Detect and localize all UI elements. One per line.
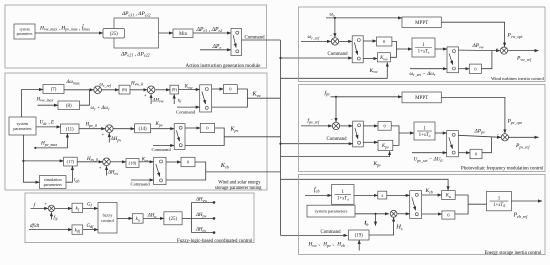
command bus vertical <box>280 40 282 235</box>
wire Peb_ref output <box>511 200 542 202</box>
wire dHvw stub into sum row1-b <box>150 94 152 104</box>
svg-text:parameters: parameters <box>44 182 63 187</box>
block 1/(1+sTd) pv <box>414 122 435 140</box>
svg-text:MPPT: MPPT <box>415 96 428 101</box>
svg-text:kdf: kdf <box>75 228 81 233</box>
svg-text:Action instruction generation: Action instruction generation module <box>185 64 261 69</box>
wire storage merge <box>455 195 468 214</box>
block Kvw gain wind <box>377 53 390 62</box>
module B border (Wind and solar energy storage parameter tuning) <box>5 73 267 190</box>
wire sysB branch to (17) <box>23 160 63 162</box>
wire Keb branch to storage module <box>281 179 449 190</box>
wire sum to wind switch1 <box>339 40 353 42</box>
svg-text:(9): (9) <box>172 87 178 92</box>
wire command into PV switch <box>281 143 353 145</box>
wire Kvw output to bus <box>247 97 280 99</box>
wire command stub row1 <box>177 106 200 108</box>
svg-text:Hvw_0: Hvw_0 <box>130 81 143 86</box>
wire MPPT pv to final sum <box>441 97 505 133</box>
svg-text:Ppv_ref: Ppv_ref <box>515 143 530 149</box>
block 1/(1+sTd) storage <box>332 185 355 205</box>
switch2 wind <box>447 47 459 73</box>
wire ku to (25) fuzzy <box>143 217 164 219</box>
wire dHes stub into sum row3 <box>106 166 108 175</box>
block zero row2 <box>200 123 214 132</box>
wire wr down into sum <box>334 18 336 37</box>
svg-text:+: + <box>144 94 147 99</box>
wire feb into Td storage <box>305 194 332 196</box>
svg-text:ΔHpv: ΔHpv <box>110 137 122 142</box>
svg-text:+: + <box>102 133 105 138</box>
svg-text:Photovoltaic frequency modulat: Photovoltaic frequency modulation contro… <box>461 166 544 171</box>
outer rect around (25) <box>114 18 159 48</box>
wire kdf to fuzzy control <box>83 229 98 231</box>
sum junction fuzzy <box>48 205 54 211</box>
svg-text:control: control <box>101 218 115 223</box>
wire (8) out joining row1 <box>80 90 90 105</box>
terminal dHes <box>213 231 216 234</box>
switch2 pv <box>447 131 459 157</box>
wire (25)box to Min <box>159 32 174 34</box>
wire tb sampling arrow <box>375 214 377 226</box>
wire (18) to switch row3 <box>139 161 154 163</box>
wire f into sum <box>31 207 49 209</box>
svg-text:ΔPe31 , ΔPe32: ΔPe31 , ΔPe32 <box>121 11 151 17</box>
wire sysB down to sim parameters <box>23 135 39 182</box>
svg-text:Hpv_0: Hpv_0 <box>85 123 97 128</box>
svg-text:(25): (25) <box>110 32 118 37</box>
block 1/(1+sTs) storage <box>487 191 512 210</box>
svg-text:Wind turbines inertia control: Wind turbines inertia control <box>491 76 545 81</box>
wire command into wind turbine switch <box>281 57 353 59</box>
terminal dHvw <box>213 201 216 204</box>
wire multiplier to storage switch <box>397 213 410 215</box>
svg-text:Energy storage inertia control: Energy storage inertia control <box>484 251 542 256</box>
switch row1 module B <box>200 85 212 112</box>
svg-text:ΔHes: ΔHes <box>107 171 118 176</box>
svg-text:+: + <box>44 203 47 208</box>
svg-text:ωr_ref: ωr_ref <box>308 34 321 40</box>
svg-text:−: − <box>496 132 499 137</box>
block zero pv lower <box>470 149 482 158</box>
svg-text:(17): (17) <box>67 159 75 164</box>
block (9) <box>170 85 179 94</box>
wire storage switch top out <box>422 194 442 196</box>
junction tb tap <box>374 213 376 215</box>
svg-text:Wind and solar energy: Wind and solar energy <box>218 180 261 185</box>
svg-text:Hpv_max: Hpv_max <box>40 141 57 147</box>
wire dHvw output <box>192 201 214 203</box>
wire wr_ref into sum <box>301 40 331 42</box>
svg-text:ΔPe21 , ΔPe22: ΔPe21 , ΔPe22 <box>120 51 150 57</box>
svg-text:ΔPe1 , ΔPe2: ΔPe1 , ΔPe2 <box>196 27 223 33</box>
wire switch row3 to zero box <box>166 161 181 163</box>
wire H list into (19) <box>358 240 360 251</box>
svg-text:−: − <box>329 33 332 38</box>
block Kpv gain pv <box>378 140 393 150</box>
sum junction wind input <box>331 38 338 45</box>
wire Kpv output to bus <box>224 136 280 138</box>
svg-text:+: + <box>99 166 102 171</box>
wire dHpv stub into sum row2 <box>108 133 110 142</box>
svg-text:(6): (6) <box>122 87 128 92</box>
svg-text:parameters: parameters <box>17 32 33 36</box>
svg-text:Udc , E: Udc , E <box>40 120 55 126</box>
junction wr tap <box>334 17 336 19</box>
block 1/(1+sTd) wind <box>412 38 435 57</box>
svg-text:Command: Command <box>328 52 349 57</box>
block zero row1 <box>223 85 237 94</box>
block Ku gain storage <box>442 191 456 200</box>
junction sysB branch row3 <box>22 160 24 162</box>
wire zero row3 out <box>166 162 206 180</box>
storage module border <box>299 174 546 254</box>
svg-text:−: − <box>330 117 333 122</box>
wire pv switch2 bottom to zero <box>458 152 470 154</box>
svg-text:ΔHvw: ΔHvw <box>195 198 207 203</box>
wire wind switch1 to zero <box>363 40 376 42</box>
sum junction row1-b <box>147 86 155 94</box>
wire Kvw branch to wind module <box>281 63 388 79</box>
svg-text:tk: tk <box>178 98 181 103</box>
block ku <box>133 214 144 224</box>
wire sysA to (25) <box>35 32 103 34</box>
wire (14) to switch row2 <box>151 128 175 130</box>
block (8) <box>58 101 80 110</box>
junction fpv tap <box>335 96 337 98</box>
block kf <box>72 203 83 212</box>
svg-text:Hes_0: Hes_0 <box>86 157 98 162</box>
PV module border <box>299 85 546 172</box>
wire pv switch1 to zero <box>363 125 378 127</box>
multiplier junction storage <box>390 210 397 217</box>
svg-text:Upv_set − ΔU0: Upv_set − ΔU0 <box>414 157 443 163</box>
svg-text:Command: Command <box>321 230 342 235</box>
wire Td to pv switch2 <box>435 132 447 134</box>
wire storage switch bottom out <box>422 213 442 215</box>
sum junction row1-a <box>94 86 102 94</box>
wire wind switch2 top out <box>459 49 501 52</box>
wire s block to storage switch <box>387 194 410 196</box>
terminal dHpv <box>213 217 216 220</box>
wire pv switch1 to Kpv box <box>363 141 378 143</box>
svg-text:ΔPpv: ΔPpv <box>474 128 486 134</box>
wire fpv to MPPT pv <box>331 96 403 98</box>
svg-text:(7): (7) <box>51 88 57 93</box>
wire sysB up to (7) <box>22 90 43 118</box>
block Min <box>173 29 193 38</box>
block (17) <box>64 157 78 166</box>
wire fuzzy control to ku <box>117 217 133 219</box>
wire zero lower join pv <box>482 137 492 152</box>
svg-text:(11): (11) <box>66 127 74 132</box>
wire Min to switch A <box>193 32 231 34</box>
wire (11) to sum row2 <box>79 128 105 130</box>
wire zero pv merge <box>391 126 399 145</box>
svg-text:1+sTd: 1+sTd <box>493 203 505 208</box>
svg-text:(19): (19) <box>355 234 363 239</box>
svg-text:Ku: Ku <box>445 194 451 199</box>
wire (19) to multiplier <box>369 218 394 235</box>
svg-text:Command: Command <box>152 147 172 152</box>
wire wind merged to Td <box>397 48 413 50</box>
module A border (Action instruction generation module) <box>5 5 267 68</box>
wire sum to pv switch1 <box>340 125 353 127</box>
block (11) <box>61 124 80 134</box>
svg-text:s: s <box>381 194 383 199</box>
wire wr to MPPT wind <box>326 17 402 19</box>
block zero pv upper <box>378 122 391 131</box>
wire Td to s block <box>354 194 378 196</box>
block: system parameters (module A) <box>14 24 35 39</box>
wire sum row1-b to (9) <box>155 89 170 91</box>
svg-text:system: system <box>20 28 30 32</box>
svg-text:Δωmax: Δωmax <box>66 80 80 85</box>
wire sum1 to (6) <box>101 89 119 91</box>
block: system parameters (storage) <box>307 205 355 217</box>
wire dPe input to switch A <box>200 49 231 51</box>
wire kf to fuzzy control <box>83 207 98 209</box>
svg-text:Pvw_ref: Pvw_ref <box>516 56 532 62</box>
svg-text:storage parameter tuning: storage parameter tuning <box>215 186 262 191</box>
wire pv switch2 top out <box>458 135 501 137</box>
wire wind switch1 to Kvw box <box>363 58 377 60</box>
svg-text:Hvw 、Hpv 、Heb: Hvw 、Hpv 、Heb <box>308 242 345 248</box>
wire MPPT wind to final sum <box>441 22 504 46</box>
svg-text:system parameters: system parameters <box>315 209 348 214</box>
command bus bottom branch to (19) <box>281 234 348 236</box>
wire merged to Ts block <box>468 203 486 205</box>
wire Upv_set input to switch2 <box>412 152 447 154</box>
wire sysB to (11) <box>36 126 61 128</box>
wire (7) to sum1 row1 <box>64 89 94 91</box>
svg-text:ωr_ref: ωr_ref <box>100 83 112 88</box>
wire fN stub into sum <box>50 212 52 219</box>
wire switch row2 to zero box <box>185 127 200 129</box>
sum junction row3 <box>103 158 111 166</box>
block zero wind lower <box>469 64 481 73</box>
block (25) fuzzy <box>164 212 182 225</box>
svg-text:Hvw_max: Hvw_max <box>36 97 54 102</box>
sum junction pv final <box>501 134 508 141</box>
svg-text:Command: Command <box>131 182 151 187</box>
wire tab from sim params into (17) <box>66 166 72 182</box>
block (25) module A <box>103 29 125 39</box>
wire (9) to switch row1 <box>179 89 200 91</box>
svg-text:MPPT: MPPT <box>415 21 428 26</box>
sum junction wind final <box>500 47 507 54</box>
block fuzzy control <box>98 203 117 234</box>
switch S1 module A <box>231 29 242 56</box>
wire switch row1 to zero box <box>212 88 224 90</box>
switch storage <box>410 191 422 219</box>
wire zero row2 out <box>185 128 224 146</box>
svg-text:Kpv: Kpv <box>155 122 163 127</box>
wire command stub row2 <box>153 145 174 147</box>
wire sum row3 to (18) <box>110 161 126 163</box>
svg-text:Kvw: Kvw <box>379 56 388 61</box>
svg-text:Kvw: Kvw <box>369 68 378 74</box>
block (7) <box>43 85 64 94</box>
block: simulation parameters <box>40 176 67 189</box>
svg-text:Command: Command <box>176 109 196 114</box>
wire Kpv branch to PV module <box>281 151 390 156</box>
branch bar fuzzy outputs <box>191 202 193 232</box>
fuzzy module border (Fuzzy-logic-based coordinated control) <box>25 193 254 243</box>
svg-text:Kpv: Kpv <box>381 144 389 149</box>
wire fpv_ref into sum <box>301 125 332 127</box>
svg-text:(8): (8) <box>66 104 72 109</box>
wire Hpv_max into (11) <box>35 134 67 148</box>
svg-text:Gdf: Gdf <box>87 224 95 229</box>
svg-text:Kpv: Kpv <box>230 127 239 133</box>
wire zero row1 out <box>212 89 248 107</box>
wire zero lower join wind <box>481 51 492 69</box>
wire wind switch2 bottom to zero <box>459 68 470 70</box>
svg-text:ΔPvw: ΔPvw <box>472 43 484 49</box>
wire zero wind merge <box>390 41 396 57</box>
wire dfdt to kdf <box>29 229 72 231</box>
block zero storage <box>442 211 455 219</box>
block kdf <box>72 225 83 234</box>
wire (17) to sum row3 <box>77 161 103 163</box>
svg-text:Ppv_opt: Ppv_opt <box>507 119 523 125</box>
wind turbine module border <box>299 7 546 82</box>
wire command stub row3 <box>131 179 154 181</box>
wire sys params to multiplier <box>355 213 389 215</box>
svg-text:Kvw: Kvw <box>184 85 193 90</box>
junction command to wind module <box>279 57 281 59</box>
block: system parameters (module B) <box>9 117 36 135</box>
svg-text:1+sTd: 1+sTd <box>418 49 430 54</box>
svg-text:−: − <box>496 45 499 50</box>
wire wr_set input to switch2 <box>410 68 447 70</box>
svg-text:Peb_ref: Peb_ref <box>513 213 529 219</box>
dot Hpv_max line start <box>34 147 36 149</box>
svg-text:Kpv: Kpv <box>373 161 382 167</box>
svg-text:df/dt: df/dt <box>30 224 40 229</box>
svg-text:(25): (25) <box>169 217 177 222</box>
block MPPT wind <box>402 17 441 28</box>
block zero row3 <box>181 157 195 166</box>
wire sum to kf <box>55 207 72 209</box>
svg-text:ΔPe: ΔPe <box>212 44 222 50</box>
svg-text:1+sTd: 1+sTd <box>419 133 431 138</box>
svg-text:1+sTd: 1+sTd <box>337 196 349 201</box>
svg-text:fN: fN <box>54 216 58 221</box>
svg-text:(18): (18) <box>129 161 137 166</box>
block (18) <box>126 159 139 168</box>
wire (25) fuzzy out to branch bar <box>182 217 192 219</box>
block (19) <box>349 230 370 240</box>
svg-text:Command: Command <box>245 35 266 40</box>
svg-text:ωr_set − Δωr: ωr_set − Δωr <box>410 71 436 77</box>
block s differentiator <box>378 191 387 199</box>
svg-text:ωr + Δωr: ωr + Δωr <box>91 106 110 111</box>
wire Hvw_max stub into (8) <box>38 104 59 106</box>
switch row2 module B <box>174 124 185 150</box>
wire dHpv output <box>192 217 214 219</box>
svg-text:ΔHes: ΔHes <box>195 228 206 233</box>
wire Pvw_ref output <box>508 50 539 52</box>
svg-text:Keb: Keb <box>425 188 433 194</box>
switch row3 module B <box>154 157 166 184</box>
junction command to PV module <box>279 143 281 145</box>
svg-text:tab: tab <box>74 178 79 183</box>
switch1 wind <box>352 36 363 63</box>
svg-text:Fuzzy-logic-based coordinated: Fuzzy-logic-based coordinated control <box>177 239 253 244</box>
block (6) <box>119 85 130 94</box>
sum junction row2 <box>106 125 114 133</box>
block (14) <box>135 124 151 133</box>
wire Keb output to bus <box>206 171 281 173</box>
switch1 pv <box>353 121 364 147</box>
block MPPT pv <box>402 92 441 103</box>
svg-text:fuzzy: fuzzy <box>102 213 113 218</box>
svg-text:Pvw_opt: Pvw_opt <box>507 33 524 39</box>
wire (6) to sum row1-b <box>130 89 147 91</box>
svg-text:Kvw: Kvw <box>252 92 262 98</box>
svg-text:ΔHpv: ΔHpv <box>195 213 207 218</box>
wire sum row2 to (14) <box>113 128 135 130</box>
svg-text:ΔHvw: ΔHvw <box>152 98 164 103</box>
wire pv merged to Td <box>399 132 414 134</box>
svg-text:parameters: parameters <box>13 126 32 131</box>
wire dHes output <box>192 232 214 234</box>
svg-text:Min: Min <box>179 32 188 37</box>
wire fpv down into sum <box>335 97 337 122</box>
svg-text:Command: Command <box>327 137 348 142</box>
sum junction pv input <box>332 122 339 129</box>
wire command out of module A <box>242 39 281 41</box>
svg-text:(14): (14) <box>139 127 147 132</box>
svg-text:ku: ku <box>136 217 140 222</box>
wire tk stub into (9) <box>173 95 175 105</box>
block zero wind upper <box>377 37 392 46</box>
wire Td to wind switch2 <box>435 48 447 50</box>
wire Ppv_ref output <box>509 136 539 138</box>
